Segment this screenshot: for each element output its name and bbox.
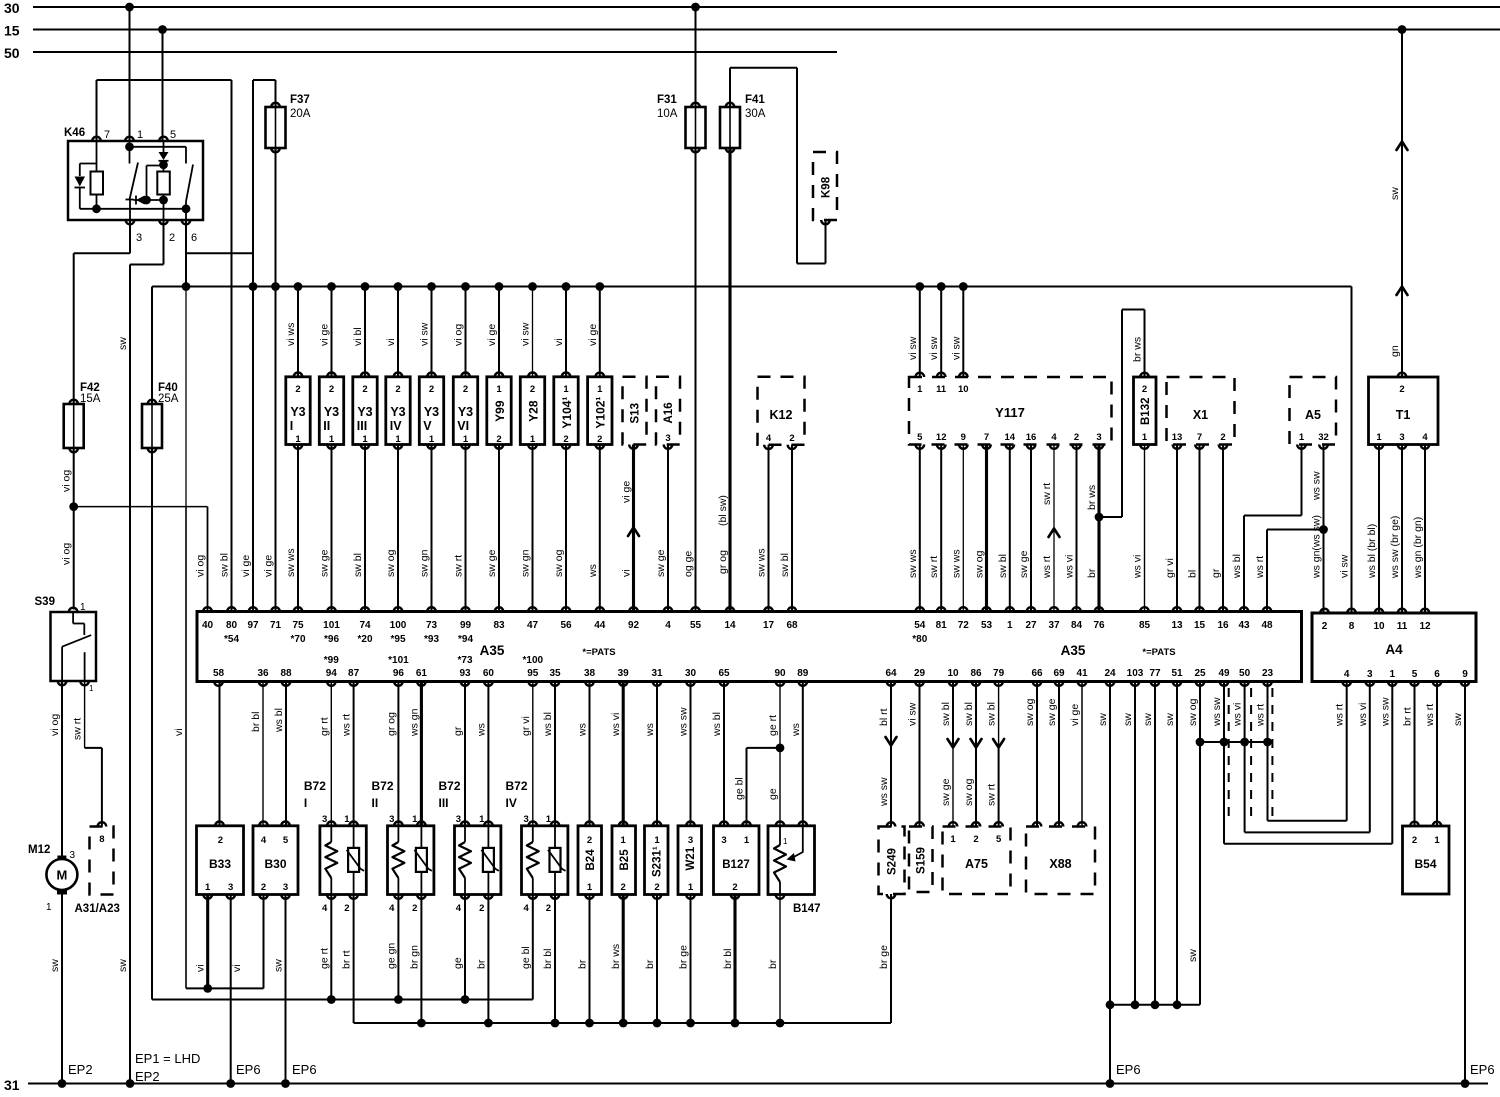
wire A35 pin 29 to S159 (vi sw) — [907, 682, 920, 827]
svg-text:4: 4 — [456, 903, 462, 914]
sensor B72 II box — [372, 779, 434, 914]
svg-text:3: 3 — [70, 850, 76, 861]
svg-text:41: 41 — [1076, 668, 1088, 679]
wire main bus to F40 — [151, 287, 153, 405]
wire K46 pin 2 to ground EP1 (sw) — [117, 220, 164, 1084]
svg-text:A16: A16 — [663, 402, 675, 423]
svg-text:36: 36 — [257, 668, 269, 679]
wire branch to B127 pin 1 (ge bl) — [734, 748, 781, 826]
node pin24 collector — [1106, 1000, 1115, 1009]
svg-text:2: 2 — [329, 384, 334, 395]
svg-text:B72: B72 — [372, 779, 394, 793]
svg-text:1: 1 — [744, 835, 750, 846]
node F42 branch — [69, 502, 78, 511]
svg-text:4: 4 — [389, 903, 395, 914]
unit A75 — [943, 827, 1011, 895]
svg-text:1: 1 — [917, 384, 923, 395]
svg-text:2: 2 — [429, 384, 434, 395]
svg-text:S231¹: S231¹ — [652, 846, 664, 877]
svg-text:68: 68 — [786, 620, 798, 631]
A4 top pins — [1320, 609, 1431, 632]
svg-text:Y104¹: Y104¹ — [560, 397, 574, 429]
svg-text:31: 31 — [4, 1077, 20, 1093]
svg-text:sw og: sw og — [385, 549, 397, 577]
wire B33 pin 3 to ground EP6 — [231, 895, 261, 1084]
svg-text:ws: ws — [587, 564, 599, 578]
node K46 pin6 internal — [182, 204, 191, 213]
wire branch to A35 pin 48 (ws rt) — [1254, 530, 1324, 612]
svg-text:B132: B132 — [1140, 398, 1152, 426]
wire A35 pin 50 to A4 pin 3 (ws vi) — [1232, 682, 1370, 833]
svg-text:2: 2 — [530, 384, 535, 395]
wire junction to B30 pin 2 — [263, 895, 265, 989]
wire A35 pin 31 to S231 (ws) — [644, 682, 657, 826]
svg-text:br: br — [1086, 568, 1098, 578]
wire A35 pin 95 to B72 IV pin 3 (gr vi) — [520, 682, 533, 826]
svg-text:I: I — [304, 796, 307, 810]
ignition coil T1 — [1369, 373, 1439, 445]
svg-text:gr vi: gr vi — [520, 716, 532, 736]
K46 relay coil — [91, 141, 104, 209]
svg-text:94: 94 — [326, 668, 338, 679]
fuse F40 25A — [142, 382, 179, 452]
svg-text:ws: ws — [790, 723, 802, 737]
svg-text:ws bl (br bl): ws bl (br bl) — [1366, 524, 1378, 579]
svg-text:1: 1 — [89, 684, 94, 693]
wire A35 pin 69 to X88 (sw ge) — [1046, 682, 1063, 827]
svg-text:9: 9 — [961, 432, 966, 443]
wire K46 pin7 loop to A35 pin 80 (sw bl) — [97, 80, 232, 612]
svg-text:2: 2 — [732, 882, 737, 893]
svg-text:61: 61 — [416, 668, 428, 679]
svg-text:br: br — [644, 959, 656, 969]
node pin50 link — [1240, 738, 1249, 747]
wire A16 pin 3 to A35 pin 4 (sw ge) — [655, 445, 668, 612]
svg-text:1: 1 — [1299, 432, 1305, 443]
node B33 pin1 junction — [203, 984, 212, 993]
svg-text:23: 23 — [1262, 668, 1274, 679]
svg-text:EP1 = LHD: EP1 = LHD — [135, 1051, 200, 1066]
wire K12 pin 4 to A35 pin 17 (sw ws) — [756, 445, 769, 612]
svg-text:10: 10 — [947, 668, 959, 679]
svg-text:ws sw: ws sw — [678, 707, 690, 737]
svg-text:EP6: EP6 — [1116, 1062, 1141, 1077]
svg-text:2: 2 — [479, 903, 484, 914]
svg-text:7: 7 — [984, 432, 989, 443]
svg-text:K98: K98 — [821, 176, 833, 198]
svg-text:br: br — [767, 959, 779, 969]
wire A35 pin 79 to A75 pin 5 (sw bl/sw rt) — [986, 682, 1005, 846]
svg-text:sw: sw — [117, 959, 129, 972]
wire A35 pin 51 to collector (sw) — [1164, 682, 1181, 1010]
svg-text:vi sw: vi sw — [907, 702, 919, 726]
valve Y102 — [588, 373, 612, 449]
wire A5 pin 1 to A35 pin 43 (ws bl) — [1231, 445, 1302, 612]
svg-text:T1: T1 — [1396, 408, 1411, 422]
svg-text:sw: sw — [117, 337, 129, 350]
svg-text:sw ge: sw ge — [486, 549, 498, 577]
wire A4 pin 9 to ground EP6 (sw) — [1452, 682, 1495, 1084]
K46 pin 6 — [182, 220, 197, 244]
svg-text:S159: S159 — [916, 847, 928, 874]
wire A35 pin 23 to A4 pin 4 (ws rt) — [1255, 682, 1347, 821]
svg-text:vi og: vi og — [195, 555, 207, 577]
K46 internal bottom wire — [80, 208, 186, 210]
K46 coil suppression diode — [75, 164, 97, 209]
svg-text:4: 4 — [766, 433, 772, 444]
svg-text:76: 76 — [1093, 620, 1105, 631]
svg-text:48: 48 — [1261, 620, 1273, 631]
svg-text:2: 2 — [1322, 621, 1328, 632]
wire B132 pin 1 to A35 pin 85 (ws vi) — [1132, 445, 1145, 612]
svg-text:ws rt: ws rt — [341, 714, 353, 737]
svg-text:20A: 20A — [290, 108, 311, 120]
collector wire sw group — [1110, 1004, 1200, 1006]
svg-text:*=PATS: *=PATS — [582, 647, 615, 658]
svg-text:br rt: br rt — [341, 950, 353, 969]
wire A35 pin 66 to X88 (sw og) — [1024, 682, 1041, 827]
svg-text:2: 2 — [1074, 432, 1079, 443]
wire B72 I pin 4 to heater rail (ge rt) — [318, 895, 335, 1004]
fuse F42 15A — [64, 382, 101, 452]
wire T1 pin 1 to A4 pin 10 — [1366, 432, 1383, 613]
svg-text:90: 90 — [774, 668, 786, 679]
svg-text:sw: sw — [1097, 713, 1109, 726]
svg-text:vi ge: vi ge — [240, 555, 252, 577]
svg-text:99: 99 — [460, 620, 472, 631]
svg-text:sw og: sw og — [1187, 698, 1199, 726]
svg-text:37: 37 — [1048, 620, 1060, 631]
svg-text:1: 1 — [496, 384, 502, 395]
svg-text:4: 4 — [1422, 432, 1428, 443]
node ground junctions — [58, 1079, 290, 1088]
sensor B72 III box — [439, 779, 501, 914]
svg-text:73: 73 — [426, 620, 438, 631]
K46 diode2 branch wire — [147, 166, 164, 201]
svg-text:49: 49 — [1218, 668, 1230, 679]
label vi on B30 pin2 wire — [231, 964, 243, 972]
control unit A4 box — [1312, 613, 1476, 682]
svg-text:8: 8 — [99, 834, 104, 845]
wire Y3 II to A35 pin 101 (sw ge) — [319, 445, 332, 612]
wire main bus to A4 pin 8 (vi sw) — [1339, 287, 1352, 614]
svg-text:39: 39 — [618, 668, 630, 679]
wire F42 branch to A35 pin 40 (vi og) — [74, 507, 208, 612]
svg-text:ws sw: ws sw — [1311, 471, 1323, 501]
svg-text:B24: B24 — [585, 849, 597, 871]
wire A35 pin 58 to B33 pin 2 — [219, 682, 221, 826]
svg-text:4: 4 — [1344, 669, 1350, 680]
wire Y3 I to A35 pin 75 (sw ws) — [285, 445, 298, 612]
svg-text:Y28: Y28 — [526, 400, 540, 422]
svg-text:103: 103 — [1127, 668, 1144, 679]
svg-text:*94: *94 — [458, 634, 473, 645]
svg-text:5: 5 — [283, 835, 289, 846]
svg-text:5: 5 — [1412, 669, 1418, 680]
svg-text:sw: sw — [1187, 949, 1199, 962]
bus line 30 — [4, 0, 1500, 16]
svg-text:2: 2 — [1220, 432, 1225, 443]
svg-text:2: 2 — [261, 882, 266, 893]
svg-text:sw ge: sw ge — [319, 549, 331, 577]
svg-text:EP2: EP2 — [68, 1062, 93, 1077]
svg-text:*93: *93 — [424, 634, 439, 645]
svg-text:A4: A4 — [1385, 642, 1403, 657]
svg-text:1: 1 — [479, 814, 485, 825]
K46 internal diode 2 — [134, 196, 164, 205]
svg-text:ws bl: ws bl — [542, 712, 554, 737]
node rail junctions — [585, 1019, 784, 1028]
svg-text:ws sw: ws sw — [1379, 697, 1391, 727]
svg-text:B72: B72 — [439, 779, 461, 793]
svg-text:vi ws: vi ws — [285, 323, 297, 346]
wire A35 pin 90 to B147 pin 1 (ge rt / ge) — [767, 682, 780, 748]
svg-text:M12: M12 — [28, 844, 50, 856]
svg-text:br ge: br ge — [878, 945, 890, 969]
wire Y99 to A35 pin 83 (sw ge) — [486, 445, 499, 612]
svg-text:vi og: vi og — [49, 714, 61, 736]
svg-text:ws rt: ws rt — [1041, 556, 1053, 579]
svg-text:58: 58 — [213, 668, 225, 679]
svg-text:101: 101 — [323, 620, 340, 631]
svg-text:*54: *54 — [224, 634, 239, 645]
svg-text:72: 72 — [958, 620, 970, 631]
svg-text:89: 89 — [797, 668, 809, 679]
svg-text:S39: S39 — [35, 596, 55, 608]
svg-text:vi: vi — [195, 964, 207, 972]
svg-text:35: 35 — [549, 668, 561, 679]
valve Y3 II — [319, 373, 343, 449]
sensor B33 — [197, 821, 244, 898]
wire F42 to switch S39 (vi og) — [61, 448, 74, 610]
wire B24 to ground rail (br) — [577, 895, 590, 1024]
svg-text:50: 50 — [1239, 668, 1251, 679]
svg-text:8: 8 — [1349, 621, 1355, 632]
svg-text:sw bl: sw bl — [986, 702, 998, 726]
svg-text:1: 1 — [621, 835, 627, 846]
svg-text:Y3: Y3 — [357, 405, 372, 419]
svg-text:br ge: br ge — [678, 945, 690, 969]
K46 right switch contact — [186, 165, 193, 221]
label ge bl B72 IV pin 4 — [520, 946, 532, 969]
svg-text:12: 12 — [1419, 621, 1431, 632]
svg-text:B72: B72 — [304, 779, 326, 793]
svg-text:43: 43 — [1238, 620, 1250, 631]
svg-text:br rt: br rt — [1402, 707, 1414, 726]
wire A35 pin 65 to B127 pin 3 (ws bl) — [711, 682, 724, 826]
svg-text:15: 15 — [4, 23, 20, 39]
variant wires (dashed) — [1229, 688, 1273, 816]
wire F41 to A35 pin 14 (gr og / bl sw) — [717, 148, 730, 612]
sensor B30 — [253, 822, 298, 899]
valve Y28 — [520, 372, 544, 448]
svg-text:2: 2 — [563, 434, 568, 445]
K46 internal feed wire to right switch — [130, 147, 187, 164]
svg-text:3: 3 — [322, 814, 327, 825]
svg-text:56: 56 — [560, 620, 572, 631]
svg-text:3: 3 — [456, 814, 461, 825]
svg-text:F31: F31 — [657, 94, 677, 106]
svg-text:*101: *101 — [388, 655, 409, 666]
svg-text:50: 50 — [4, 45, 20, 61]
svg-text:1: 1 — [1142, 432, 1148, 443]
svg-text:sw bl: sw bl — [963, 702, 975, 726]
wire K46 pin 6 to main bus — [186, 220, 253, 287]
svg-text:sw: sw — [1142, 713, 1154, 726]
svg-text:ws vi: ws vi — [1132, 555, 1144, 579]
heater supply rail from F40 (ge wires) — [152, 895, 533, 1000]
wire main bus to B30 pin 2 (vi) — [173, 287, 264, 988]
wire Y104 to A35 pin 56 (sw og) — [553, 445, 566, 612]
wire B33 pin 1 to junction (vi) — [195, 895, 208, 989]
K46 pin 7 — [92, 129, 110, 141]
svg-text:vi ge: vi ge — [621, 481, 633, 503]
svg-text:EP6: EP6 — [236, 1062, 261, 1077]
wire W21 to ground rail (br ge) — [678, 895, 691, 1024]
wire B72 IV pin 2 to rail (br bl) — [542, 895, 559, 1028]
svg-text:*95: *95 — [390, 634, 405, 645]
wire A35 pin 96 to B72 II pin 3 (gr og) — [385, 682, 398, 826]
wire A35 pin 60 to B72 III pin 1 (ws) — [475, 682, 488, 826]
svg-text:1: 1 — [546, 814, 552, 825]
svg-text:ws vi: ws vi — [1357, 703, 1369, 727]
wire Y3 VI to A35 pin 99 (sw rt) — [453, 445, 466, 612]
fuse F37 20A — [266, 94, 311, 152]
svg-text:2: 2 — [218, 835, 223, 846]
svg-text:86: 86 — [970, 668, 982, 679]
svg-text:vi sw: vi sw — [520, 322, 532, 346]
wire Y117 pin 4 to A35 pin 37 (sw rt / ws rt) — [1041, 432, 1060, 612]
wire S13 to A35 pin 92 (vi ge / vi) — [621, 445, 640, 612]
resistor in B72 I — [325, 826, 337, 895]
A35 bottom pins — [213, 655, 1274, 686]
svg-text:sw ge: sw ge — [940, 778, 952, 806]
svg-text:3: 3 — [136, 232, 142, 244]
svg-text:2: 2 — [789, 433, 794, 444]
svg-text:X1: X1 — [1193, 408, 1208, 422]
svg-text:2: 2 — [463, 384, 468, 395]
svg-text:Y3: Y3 — [290, 405, 305, 419]
svg-text:sw ge: sw ge — [1018, 550, 1030, 578]
svg-text:ws bl: ws bl — [273, 708, 285, 733]
wire X1 pin 2 to A35 pin 16 (gr) — [1210, 432, 1227, 612]
svg-text:B54: B54 — [1414, 857, 1436, 871]
wire branch to B132 pin 2 (br ws) — [1099, 310, 1145, 518]
svg-text:br ws: br ws — [1086, 485, 1098, 510]
node: bus 30 junctions — [125, 3, 700, 12]
svg-text:ws gn: ws gn — [408, 708, 420, 737]
svg-text:ws rt: ws rt — [1255, 704, 1267, 727]
svg-text:1: 1 — [688, 882, 694, 893]
svg-text:ws gn(ws sw): ws gn(ws sw) — [1311, 515, 1323, 579]
svg-text:vi ge: vi ge — [1069, 704, 1081, 726]
svg-text:br: br — [577, 959, 589, 969]
unit A5 — [1290, 377, 1337, 449]
main supply bus wire — [152, 286, 1352, 288]
svg-text:2: 2 — [621, 882, 626, 893]
svg-text:16: 16 — [1026, 432, 1037, 443]
svg-text:1: 1 — [295, 434, 301, 445]
wire A5 pin 32 to A4 pin 2 (ws sw / ws gn) — [1311, 445, 1324, 614]
relay K46 box — [64, 127, 203, 220]
svg-text:12: 12 — [936, 432, 947, 443]
svg-text:54: 54 — [914, 620, 926, 631]
svg-text:VI: VI — [457, 419, 469, 433]
svg-text:93: 93 — [459, 668, 471, 679]
A35 top pins — [202, 607, 1273, 645]
motor M12 — [28, 844, 77, 913]
valve Y3 I — [286, 372, 310, 448]
svg-text:ws rt: ws rt — [1254, 556, 1266, 579]
svg-text:1: 1 — [950, 834, 956, 845]
node K46 coil bottom — [92, 204, 101, 213]
svg-text:ge: ge — [452, 957, 464, 969]
svg-text:ws vi: ws vi — [610, 713, 622, 737]
svg-text:gn: gn — [1389, 345, 1401, 357]
svg-text:2: 2 — [546, 903, 551, 914]
svg-text:ws sw: ws sw — [1211, 697, 1223, 727]
svg-text:1: 1 — [587, 882, 593, 893]
svg-text:1: 1 — [1376, 432, 1382, 443]
sensor B24 — [578, 822, 602, 899]
wire B72 III pin 2 to rail (br) — [475, 895, 492, 1028]
svg-text:ws sw: ws sw — [878, 777, 890, 807]
svg-text:sw rt: sw rt — [986, 784, 998, 806]
svg-text:gr rt: gr rt — [318, 717, 330, 736]
K46 left switch contact — [126, 141, 139, 220]
svg-text:6: 6 — [191, 232, 197, 244]
svg-text:vi bl: vi bl — [352, 327, 364, 346]
svg-text:16: 16 — [1217, 620, 1229, 631]
svg-text:br bl: br bl — [722, 949, 734, 969]
svg-text:gr vi: gr vi — [1164, 558, 1176, 578]
svg-text:sw: sw — [49, 959, 61, 972]
wire T1 pin 3 to A4 pin 11 — [1389, 432, 1406, 613]
svg-text:*80: *80 — [912, 634, 927, 645]
svg-text:96: 96 — [393, 668, 405, 679]
wire A35 pin 89 to B147 wiper (ws) — [790, 682, 803, 826]
svg-text:2: 2 — [362, 384, 367, 395]
svg-text:IV: IV — [506, 796, 517, 810]
wire S39 to A31/A23 pin 8 (sw rt) — [72, 681, 102, 827]
svg-text:X88: X88 — [1049, 857, 1071, 871]
svg-text:B33: B33 — [209, 857, 231, 871]
wire Y117 pin 2 to A35 pin 84 (ws vi) — [1064, 432, 1081, 612]
connector X1 — [1167, 377, 1235, 445]
valve Y104 — [554, 372, 578, 448]
svg-text:ws bl: ws bl — [1231, 554, 1243, 579]
svg-text:vi: vi — [621, 569, 633, 577]
svg-text:K46: K46 — [64, 127, 85, 139]
svg-text:2: 2 — [587, 835, 592, 846]
wire A35 pin 77 to collector (sw) — [1142, 682, 1159, 1010]
resistor in B72 III — [459, 826, 471, 895]
svg-text:4: 4 — [524, 903, 530, 914]
svg-text:2: 2 — [1412, 835, 1417, 846]
svg-text:29: 29 — [914, 668, 926, 679]
svg-text:64: 64 — [885, 668, 897, 679]
node A4 ground — [1461, 1079, 1470, 1088]
wire A35 pin 86 to A75 pin 2 (sw bl/sw og) — [963, 682, 982, 846]
svg-text:EP2: EP2 — [135, 1069, 160, 1084]
K46 pin 5 — [159, 129, 176, 141]
svg-text:88: 88 — [280, 668, 292, 679]
wire A35 pin 25 to collector (sw og / sw) — [1187, 682, 1200, 1005]
svg-text:3: 3 — [1399, 432, 1404, 443]
svg-text:sw ws: sw ws — [907, 549, 919, 578]
svg-text:32: 32 — [1318, 432, 1329, 443]
svg-text:3: 3 — [688, 835, 693, 846]
